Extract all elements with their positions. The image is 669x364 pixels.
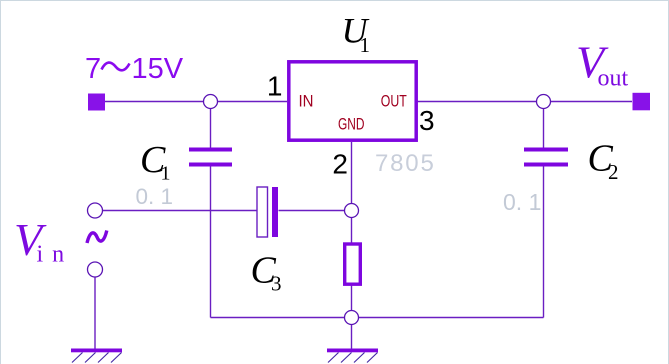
wire: C2 bottom lead down to bottom rail <box>543 167 545 318</box>
Vin bottom terminal circle <box>88 262 103 277</box>
svg-text:2: 2 <box>608 160 619 184</box>
output terminal square <box>633 93 651 111</box>
svg-text:1: 1 <box>267 71 283 102</box>
input terminal square <box>88 94 105 111</box>
op-amp U1 box (7805 regulator) <box>289 62 416 140</box>
svg-text:GND: GND <box>338 116 365 134</box>
resistor R1 <box>345 244 361 284</box>
AC source tilde symbol <box>87 231 107 244</box>
wire: C3 right plate to node 2 <box>279 210 352 212</box>
wire: input terminal to U1 pin1 (top horizontal left) <box>105 101 287 103</box>
svg-text:1: 1 <box>161 163 171 185</box>
wire: C1 top lead <box>210 102 212 148</box>
svg-text:out: out <box>598 66 629 92</box>
node C: junction of GND pin, C3 and resistor <box>345 204 359 218</box>
svg-text:IN: IN <box>299 93 314 111</box>
ground (center, under resistor) <box>327 349 378 363</box>
svg-text:3: 3 <box>271 272 282 296</box>
wire: U1 GND pin down through resistor to center ground <box>351 142 353 349</box>
wire: bottom rail <box>211 317 544 319</box>
ground (left, under Vin) <box>71 349 122 363</box>
svg-text:7805: 7805 <box>375 150 436 177</box>
svg-text:7: 7 <box>85 53 101 85</box>
svg-text:3: 3 <box>419 105 435 136</box>
wire: C1 bottom lead down to bottom rail <box>210 167 212 318</box>
wire: U1 pin3 to output terminal (top horizontal right) <box>416 101 632 103</box>
frame border left <box>0 0 2 364</box>
capacitor C3 left plate (hollow) <box>257 187 268 237</box>
svg-text:i n: i n <box>37 242 66 268</box>
capacitor C3 right plate (solid) <box>272 187 278 237</box>
node A: junction of input wire and C1 <box>204 95 218 109</box>
wire: C2 top lead <box>543 102 545 148</box>
frame border right <box>668 0 669 364</box>
svg-text:1: 1 <box>360 33 371 57</box>
frame border top <box>0 0 669 2</box>
svg-text:0. 1: 0. 1 <box>136 184 174 209</box>
wire: Vin top terminal to C3 left plate <box>103 210 258 212</box>
svg-text:15V: 15V <box>132 53 184 85</box>
Vin top terminal circle <box>88 203 103 218</box>
node D: junction of resistor and bottom rail <box>345 311 359 325</box>
svg-text:OUT: OUT <box>381 93 407 111</box>
node B: junction of output wire and C2 <box>537 95 551 109</box>
wire: Vin bottom terminal down to left ground <box>94 277 96 349</box>
capacitor C2 plates <box>524 148 568 152</box>
capacitor C1 plates <box>189 148 232 152</box>
svg-text:2: 2 <box>332 149 348 180</box>
svg-text:0. 1: 0. 1 <box>503 189 541 215</box>
